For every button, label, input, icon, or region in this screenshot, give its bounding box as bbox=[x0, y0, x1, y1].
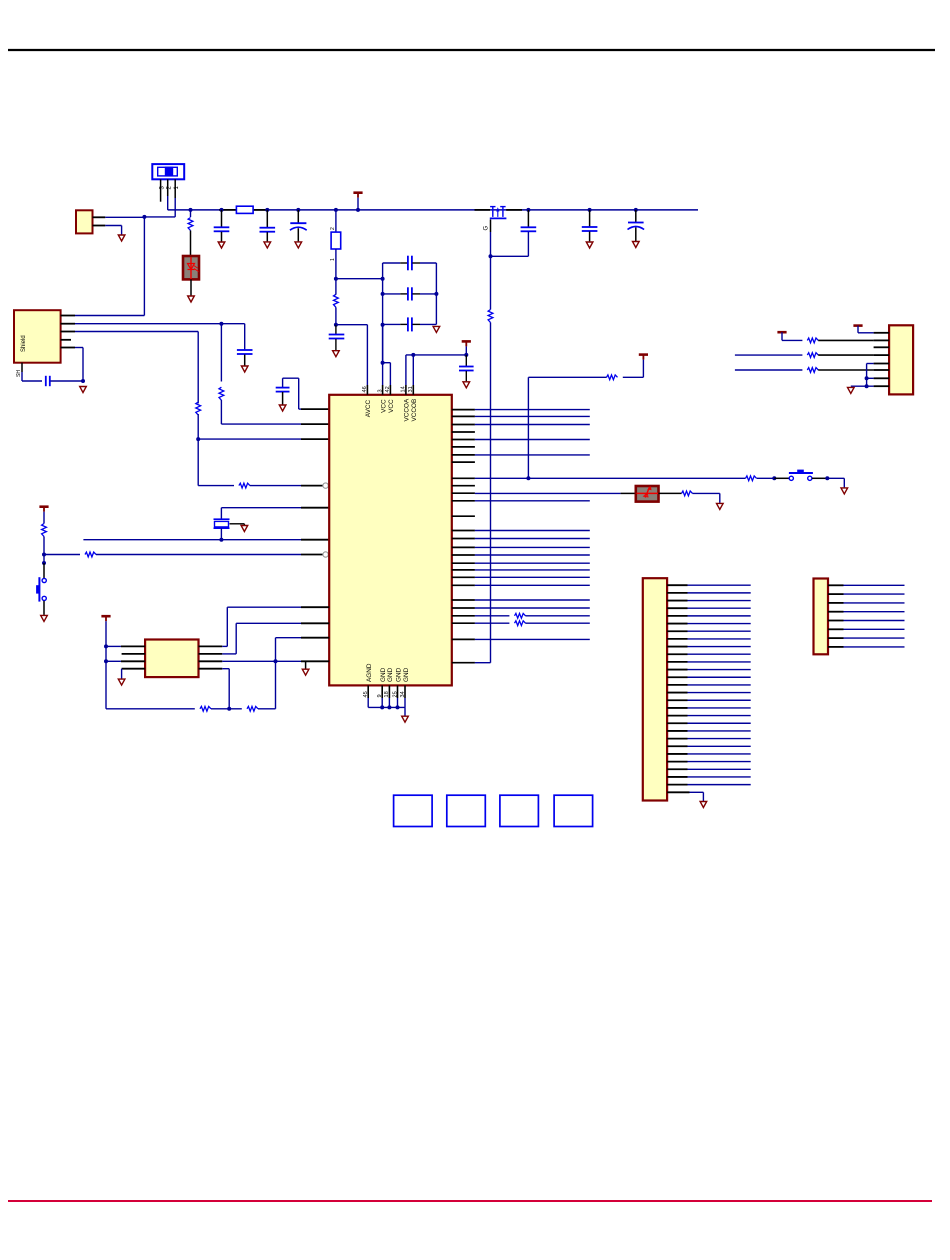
LED D1 (opto) box bbox=[183, 256, 199, 279]
page footer rule bbox=[8, 1200, 932, 1202]
wire C7 to IC pin bbox=[283, 378, 301, 409]
node J-SW junction bbox=[142, 215, 146, 219]
node pin3-42 jog bbox=[381, 361, 391, 385]
wire U2 rp1 to U1 bbox=[222, 607, 301, 646]
wire D1 to ground bbox=[190, 279, 192, 296]
wire U2 pin1 to VCC4 bbox=[104, 644, 121, 648]
U2 right pin 1 bbox=[199, 645, 223, 647]
ground G20 bbox=[700, 802, 707, 808]
capacitor C7 bbox=[276, 378, 290, 404]
node rail-R2 bbox=[334, 208, 338, 212]
IC1 left pin y554 inverted bbox=[301, 552, 328, 557]
resistor R2 bbox=[330, 210, 341, 261]
wire pins 14-31 top bbox=[406, 353, 466, 385]
ground G12 bbox=[241, 526, 248, 532]
SHIELD SH pin bbox=[16, 363, 22, 377]
wire U2 rp2 to U1 bbox=[222, 623, 301, 654]
wire AVCC to pin46 bbox=[336, 325, 368, 385]
node rail-MOSFET-C2 bbox=[526, 208, 530, 212]
ground G22 bbox=[295, 242, 302, 248]
wire TVS to R13 bbox=[659, 492, 682, 494]
CN4 pins and wires bbox=[828, 585, 905, 647]
ground G11 bbox=[279, 405, 286, 411]
diode D2 TVS box bbox=[636, 486, 659, 502]
U2 right pin 3 bbox=[199, 660, 223, 662]
IC1 left pin y485 inverted bbox=[301, 483, 328, 488]
ground G21 bbox=[264, 242, 271, 248]
connector CN2 body bbox=[889, 325, 913, 394]
wire R5 down bbox=[197, 439, 199, 486]
wire y493 to TVS bbox=[475, 492, 636, 494]
node gate junction bbox=[489, 254, 493, 258]
CN5 pin 2 bbox=[93, 225, 106, 227]
ground G18 bbox=[717, 503, 724, 509]
svg-text:G: G bbox=[484, 226, 490, 231]
capacitor C5 bbox=[237, 350, 253, 366]
ground G14 bbox=[118, 679, 125, 685]
wire SW3 to ground bbox=[827, 478, 844, 487]
svg-text:GND: GND bbox=[380, 667, 387, 682]
node SH junction bbox=[81, 379, 85, 383]
svg-text:42: 42 bbox=[385, 386, 391, 392]
pushbutton SW3 bbox=[774, 470, 827, 481]
resistor R13 bbox=[682, 491, 720, 496]
node rail-C1 bbox=[220, 208, 224, 212]
wire gate-node upper segment bbox=[490, 256, 492, 309]
svg-text:SH: SH bbox=[16, 370, 22, 377]
rail black pin segments bbox=[219, 209, 522, 211]
power flag VCC5 bbox=[853, 324, 862, 327]
op-amp U2 body bbox=[145, 640, 198, 678]
U2 right pin 4 bbox=[199, 668, 223, 670]
SHIELD pin 5 bbox=[61, 347, 75, 349]
capacitor C10 bbox=[383, 287, 437, 300]
transistor Q1 bbox=[490, 207, 507, 219]
CN5 pin 1 bbox=[93, 216, 106, 218]
capacitor C8 bbox=[329, 325, 345, 351]
CN3 pins and wires bbox=[667, 585, 751, 784]
wire CN2 pin4 + resistor R15 bbox=[735, 353, 874, 358]
ground G19 bbox=[848, 387, 855, 393]
U1 bottom pin names bbox=[366, 663, 410, 682]
wire U1 right y416 bbox=[475, 415, 590, 417]
node SW3 out bbox=[825, 476, 829, 480]
op-amp U1 main IC body bbox=[329, 395, 452, 686]
U1 right pin stubs bbox=[452, 410, 475, 663]
power flag VCC1 bbox=[353, 193, 362, 212]
node AVCC junction bbox=[334, 323, 338, 327]
ground G5 bbox=[433, 326, 440, 332]
capacitor C9 bbox=[383, 256, 437, 271]
svg-text:31: 31 bbox=[408, 386, 414, 392]
U2 left pin 4 bbox=[122, 668, 146, 670]
wire U1 right y538 bbox=[475, 538, 590, 540]
ground G10 bbox=[80, 387, 87, 393]
wire SH to cap bbox=[22, 372, 42, 381]
stack right rail bbox=[434, 263, 438, 324]
wire CN2 pin6 + resistor R16 bbox=[735, 368, 874, 373]
node rail-C4 bbox=[634, 208, 638, 212]
U1 left pin y607 bbox=[301, 606, 329, 608]
svg-text:AVCC: AVCC bbox=[365, 400, 372, 418]
ground G2 bbox=[188, 296, 195, 302]
wire CN5 pin1 to junction bbox=[105, 216, 144, 218]
ground G3 bbox=[218, 242, 225, 248]
U2 left pin 1 bbox=[121, 645, 145, 647]
resistor R8 bbox=[334, 279, 339, 325]
resistor R7 bbox=[42, 512, 47, 555]
power flag VCCO bbox=[462, 341, 471, 357]
wire U1 right y439 bbox=[475, 439, 590, 441]
wire gate-node long vertical bbox=[490, 323, 492, 663]
resistor R1 on rail bbox=[236, 206, 253, 213]
wire U2 pin4 to ground bbox=[121, 669, 123, 679]
ground G7 bbox=[586, 242, 593, 248]
wire crystal down bbox=[220, 528, 222, 540]
crystal Y1 bbox=[214, 519, 230, 528]
resistor R17 bbox=[488, 310, 493, 323]
resistor R9 bbox=[528, 375, 643, 380]
wire U1 ground bus bbox=[368, 698, 405, 716]
wire x528 vertical bbox=[527, 377, 529, 478]
capacitor C13 bbox=[260, 210, 276, 242]
SHIELD pin 4 stub bbox=[61, 339, 71, 341]
wire IC pin y507 to crystal bbox=[221, 508, 329, 519]
wire U1 right y615 with resistor R10 bbox=[475, 613, 590, 618]
svg-text:34: 34 bbox=[400, 691, 406, 697]
U2 left pin 2 stub bbox=[122, 653, 146, 655]
node rail-C3 bbox=[588, 208, 592, 212]
capacitor C14 polarized bbox=[290, 210, 307, 242]
resistor R3 bbox=[188, 210, 193, 256]
page header rule bbox=[8, 49, 935, 51]
svg-text:Shield: Shield bbox=[21, 335, 27, 352]
IC1 left pin y539 bbox=[301, 539, 329, 541]
wire crystal case to ground bbox=[230, 524, 245, 526]
svg-text:AGND: AGND bbox=[366, 663, 373, 682]
pushbutton SW2 bbox=[36, 563, 46, 615]
wire stack row1 left bbox=[336, 278, 383, 280]
wire CN2 pin2 + resistor R14 bbox=[782, 332, 874, 343]
svg-text:VCCOA: VCCOA bbox=[404, 398, 411, 421]
node block D bbox=[554, 795, 593, 826]
capacitor C6 bbox=[46, 376, 83, 386]
IC1 left pin y409 bbox=[301, 408, 329, 410]
wire U2 rp4 down bbox=[222, 669, 229, 709]
wire U2 rp3 to U1 bbox=[222, 659, 301, 663]
ground G1 bbox=[118, 235, 125, 241]
capacitor C3 bbox=[582, 210, 598, 242]
capacitor C2 bbox=[521, 210, 537, 256]
wire R4 to IC pin bbox=[221, 423, 301, 425]
svg-text:2: 2 bbox=[330, 227, 336, 230]
U1 top pin names bbox=[365, 398, 418, 421]
wire R5 to IC pin bbox=[198, 438, 301, 440]
connector CN3 body bbox=[643, 578, 667, 800]
node stack top-left bbox=[335, 249, 337, 279]
capacitor C4 polarized bbox=[628, 210, 645, 241]
U2 right pin 2 bbox=[199, 653, 223, 655]
ground G4 bbox=[333, 351, 340, 357]
wire U1 right y639 bbox=[475, 638, 590, 640]
wire y554 long bbox=[44, 552, 301, 557]
capacitor C1 bbox=[214, 210, 230, 242]
power flag VCC4 bbox=[101, 616, 110, 646]
node rail-C14 bbox=[296, 208, 300, 212]
svg-text:VCC: VCC bbox=[388, 399, 395, 413]
wire SW1 pin2 to rail bbox=[167, 196, 169, 210]
wire SHIELD pin3 right-down bbox=[75, 332, 198, 404]
Q1 gate label G bbox=[484, 226, 490, 231]
connector CN4 body bbox=[814, 579, 829, 655]
svg-text:45: 45 bbox=[363, 691, 369, 697]
CN2 pin stubs bbox=[874, 333, 890, 386]
IC1 left pin y439 bbox=[301, 438, 329, 440]
wire x106 vertical bbox=[105, 646, 107, 708]
svg-text:VCC: VCC bbox=[380, 399, 387, 413]
wire U1 right y424 bbox=[475, 424, 590, 426]
ground G13 bbox=[41, 615, 48, 621]
node block B bbox=[447, 795, 486, 826]
wire U1 right y555 bbox=[475, 554, 590, 556]
resistor R4 bbox=[219, 324, 224, 424]
svg-text:VCCOB: VCCOB bbox=[411, 399, 418, 422]
svg-text:25: 25 bbox=[392, 691, 398, 697]
wire R13 down bbox=[719, 493, 721, 503]
wire U1 right y454 bbox=[475, 454, 590, 456]
wire long y539 bbox=[83, 539, 301, 541]
node R5 junction bbox=[196, 437, 200, 441]
wire U1 right y577 bbox=[475, 576, 590, 578]
wire SHIELD pin2 right bbox=[75, 322, 245, 350]
resistor R6 bbox=[198, 483, 301, 488]
ground G6 bbox=[463, 382, 470, 388]
resistor R5 bbox=[196, 402, 201, 439]
svg-text:GND: GND bbox=[403, 667, 410, 682]
U1 left pin y661 bbox=[301, 660, 329, 662]
wire U1 right y500 bbox=[475, 500, 590, 502]
switch SW1 body bbox=[152, 164, 184, 179]
node R2-stack junction bbox=[334, 277, 338, 281]
wire y478 long bbox=[475, 476, 746, 480]
wire U1 right y409 bbox=[475, 409, 590, 411]
node rail-R3 bbox=[189, 208, 193, 212]
wire U1 right y585 bbox=[475, 584, 590, 586]
switch SW1 pin labels bbox=[159, 186, 180, 190]
ground G15 bbox=[302, 662, 309, 676]
ground G9 bbox=[241, 366, 248, 372]
wire Q1 gate down bbox=[490, 220, 492, 257]
ground G17 bbox=[841, 488, 848, 494]
U1 left pin y623 bbox=[301, 622, 329, 624]
node rail-C13 bbox=[265, 208, 269, 212]
wire pin3 vertical bbox=[382, 324, 384, 385]
SHIELD pin 2 bbox=[61, 323, 75, 325]
capacitor C11 bbox=[383, 317, 437, 331]
U1 top pin stubs and numbers bbox=[362, 385, 414, 395]
wire CN5 pin2 to ground bbox=[105, 226, 121, 236]
switch SW1 pin 2 bbox=[167, 179, 169, 196]
CN3 last pin to ground bbox=[667, 792, 703, 801]
wire SHIELD pin1 up to CN5 net bbox=[75, 217, 144, 315]
switch SW1 pin 1 bbox=[174, 179, 176, 198]
wire main VCC rail bbox=[168, 209, 698, 211]
wire bottom feedback bbox=[106, 706, 276, 711]
node crystal junction bbox=[219, 538, 223, 542]
SHIELD pin 1 bbox=[61, 315, 75, 317]
power flag VCC2 bbox=[39, 507, 48, 512]
wire CN2 pin1 bbox=[858, 326, 874, 333]
IC1 left pin y424 bbox=[301, 423, 329, 425]
svg-text:GND: GND bbox=[387, 667, 394, 682]
svg-text:46: 46 bbox=[362, 386, 368, 392]
wire U2 pin3 left bbox=[104, 659, 121, 663]
wire x275 up to U1 bbox=[276, 638, 302, 709]
wire CN2 pin5-7-8 tie bbox=[851, 364, 874, 389]
U2 left pin 3 bbox=[121, 660, 145, 662]
switch SW1 pin 3 bbox=[160, 179, 162, 201]
stack left rail bbox=[381, 263, 385, 363]
svg-text:1: 1 bbox=[330, 258, 336, 261]
U1 bottom pin stubs and numbers bbox=[363, 685, 406, 698]
svg-text:14: 14 bbox=[401, 386, 407, 392]
capacitor C12 bbox=[459, 355, 474, 381]
wire U1 right y563 bbox=[475, 562, 590, 564]
ground G16 bbox=[402, 716, 409, 722]
SHIELD pin 3 bbox=[61, 331, 75, 333]
node R12-SW3 bbox=[772, 476, 776, 480]
svg-text:9: 9 bbox=[377, 694, 383, 697]
svg-text:18: 18 bbox=[384, 691, 390, 697]
wire U1 right y623 with resistor R11 bbox=[475, 621, 590, 626]
svg-text:3: 3 bbox=[377, 389, 383, 392]
wire U1 right y530 bbox=[475, 530, 590, 532]
wire SHIELD pin5 down bbox=[75, 348, 83, 382]
power flag VCC3 bbox=[639, 355, 648, 378]
node R7-SW2 bbox=[42, 553, 46, 566]
wire C2 to gate node bbox=[491, 255, 529, 257]
resistor R12 bbox=[746, 476, 775, 481]
wire SW1 pin1 down-left bbox=[144, 198, 175, 217]
U1 left pin y637 bbox=[301, 637, 329, 639]
ground G8 bbox=[633, 242, 640, 248]
connector SHIELD box bbox=[14, 310, 61, 363]
node x490 crossings bbox=[489, 477, 491, 479]
wire U1 right y569 bbox=[475, 569, 590, 571]
node block C bbox=[500, 795, 539, 826]
wire U1 right y662 to vertical bbox=[475, 662, 491, 664]
power flag VCC6 bbox=[777, 331, 786, 334]
wire U1 right y600 bbox=[475, 599, 590, 601]
svg-text:GND: GND bbox=[395, 667, 402, 682]
connector CN5 bbox=[76, 210, 93, 233]
wire U1 right y547 bbox=[475, 546, 590, 548]
node block A bbox=[394, 795, 433, 826]
wire U1 right y608 bbox=[475, 607, 590, 609]
